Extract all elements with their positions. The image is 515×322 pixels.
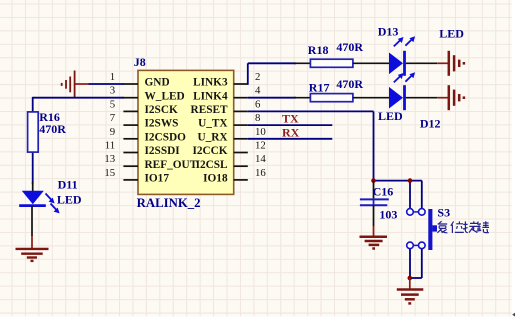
ground GND5 under C16 (360, 237, 388, 249)
LED D12 arrows (394, 72, 415, 82)
svg-text:U_RX: U_RX (197, 131, 228, 143)
svg-text:10: 10 (255, 126, 266, 138)
svg-text:LED: LED (439, 26, 464, 40)
op-amp U1 : connector J8 body (138, 70, 234, 194)
svg-text:LED: LED (378, 109, 403, 123)
svg-text:12: 12 (255, 140, 266, 152)
svg-text:8: 8 (255, 112, 260, 124)
pin 7 stub (123, 124, 138, 126)
svg-text:R18: R18 (308, 43, 329, 57)
svg-text:C16: C16 (373, 184, 394, 198)
svg-text:14: 14 (255, 153, 266, 165)
wire pin6 RESET net (248, 111, 422, 209)
pin 15 stub (123, 179, 138, 181)
junction at C16 tap (371, 178, 376, 183)
pin 4 stub (234, 97, 248, 99)
svg-text:REF_OUT: REF_OUT (145, 159, 198, 171)
ground GND6 under S3 (397, 290, 424, 304)
ground GND3 bars (449, 51, 464, 76)
switch S3 actuator bar (428, 209, 437, 250)
wire R18 to D13 (353, 62, 389, 64)
pin 6 stub (234, 110, 248, 112)
pin 1 stub (123, 83, 138, 85)
white crop margins (512, 0, 515, 322)
svg-text:I2CCK: I2CCK (192, 145, 227, 157)
svg-text:6: 6 (255, 98, 261, 110)
pin 2 stub (234, 83, 248, 85)
svg-text:I2SCK: I2SCK (145, 104, 178, 116)
svg-text:3: 3 (110, 85, 115, 97)
svg-text:IO17: IO17 (145, 173, 170, 185)
svg-text:U_TX: U_TX (198, 118, 228, 130)
LED D11 (pointing down) (19, 191, 46, 206)
ground GND3 (rotated right) stub (437, 62, 449, 64)
ground GND1 bar3 (65, 80, 67, 89)
pin 14 stub (234, 165, 248, 167)
ground GND6 stub (409, 278, 411, 289)
pin 16 stub (234, 179, 248, 181)
wire pin2 to R18 (248, 63, 311, 85)
svg-text:470R: 470R (336, 40, 363, 54)
pin 12 stub (234, 152, 248, 154)
svg-text:7: 7 (110, 112, 116, 124)
capacitor C16 (360, 181, 389, 236)
svg-text:I2CSDO: I2CSDO (145, 131, 187, 143)
ground GND4 bars (449, 85, 464, 110)
ground GND1 dot (61, 83, 63, 86)
svg-text:16: 16 (255, 167, 266, 179)
wire pin4 to R17 (248, 97, 311, 99)
svg-text:W_LED: W_LED (145, 90, 185, 102)
svg-text:GND: GND (145, 77, 170, 89)
wire pin10 RX (248, 138, 332, 140)
mouse cursor artifact (512, 313, 515, 317)
pin 10 stub (234, 138, 248, 140)
svg-text:D13: D13 (378, 24, 399, 38)
svg-text:I2SWS: I2SWS (145, 118, 179, 130)
pin 8 stub (234, 124, 248, 126)
ground GND2 under D11 (16, 249, 49, 261)
svg-text:2: 2 (255, 71, 260, 83)
svg-text:9: 9 (110, 126, 115, 138)
resistor R17 (310, 94, 353, 102)
label 复位按键 (reset button) (437, 221, 489, 233)
svg-text:4: 4 (255, 85, 261, 97)
svg-text:11: 11 (105, 140, 115, 152)
svg-text:J8: J8 (134, 55, 146, 69)
svg-text:S3: S3 (437, 205, 450, 219)
ground GND1 bar1 (74, 71, 76, 99)
svg-text:LINK3: LINK3 (193, 77, 228, 89)
svg-text:LED: LED (57, 192, 82, 206)
wire R17 to D12 (353, 97, 389, 99)
ground GND4 (rotated right) stub (437, 97, 449, 99)
pin 5 stub (123, 110, 138, 112)
svg-text:RESET: RESET (191, 104, 229, 116)
svg-text:470R: 470R (336, 77, 363, 91)
svg-text:LINK4: LINK4 (193, 90, 228, 102)
svg-text:R17: R17 (309, 81, 330, 95)
pin 11 stub (123, 152, 138, 154)
ground GND1 bar2 (69, 77, 71, 93)
svg-text:IO18: IO18 (203, 173, 228, 185)
svg-text:13: 13 (104, 153, 115, 165)
LED D13 arrows (394, 36, 415, 46)
wire pin3 net W_LED (33, 97, 124, 112)
svg-text:TX: TX (282, 111, 299, 125)
svg-text:5: 5 (110, 98, 115, 110)
wire D11 cathode to ground (31, 206, 33, 249)
svg-text:RALINK_2: RALINK_2 (137, 196, 201, 210)
pin 13 stub (123, 165, 138, 167)
junction at S3 left tap (408, 178, 413, 183)
resistor R18 (310, 59, 353, 67)
wire pin8 TX (248, 124, 332, 126)
svg-text:I2SSDI: I2SSDI (145, 145, 181, 157)
switch S3 contacts bottom (407, 242, 425, 249)
LED D13 (pointing right) (389, 51, 405, 76)
svg-text:I2CSL: I2CSL (196, 159, 228, 171)
wire D13 cathode to ground (406, 62, 437, 64)
svg-text:D12: D12 (420, 117, 441, 131)
svg-text:RX: RX (282, 125, 300, 139)
LED D12 (pointing right) (389, 85, 405, 110)
svg-text:1: 1 (110, 71, 115, 83)
ground GND1 (rotated left) stub (75, 83, 89, 85)
switch S3 contacts top (407, 209, 425, 216)
resistor R16 (28, 112, 39, 192)
LED D11 arrows (46, 194, 60, 214)
wire pin1 to ground (89, 83, 125, 85)
junction at S3 ground (408, 276, 413, 281)
wire S3 bottom contacts to ground (410, 249, 422, 278)
svg-text:15: 15 (104, 167, 115, 179)
wire D12 cathode to ground (406, 97, 437, 99)
pin 9 stub (123, 138, 138, 140)
svg-text:470R: 470R (39, 122, 66, 136)
pin 3 stub (123, 97, 138, 99)
svg-text:103: 103 (379, 207, 397, 221)
svg-text:D11: D11 (58, 178, 78, 192)
